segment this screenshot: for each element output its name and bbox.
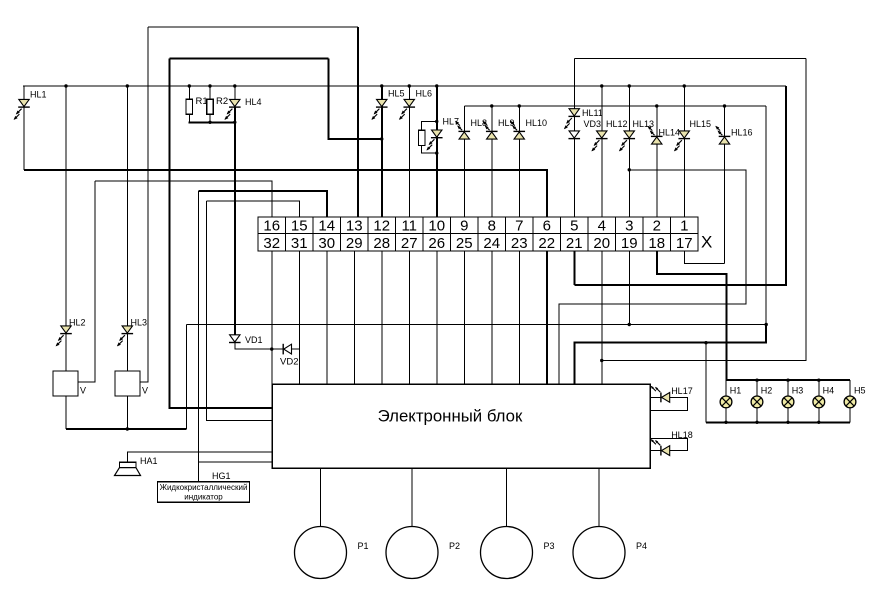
LED HL9: [483, 118, 515, 139]
wire lamp H4 stubs: [818, 380, 820, 422]
svg-text:23: 23: [511, 235, 528, 252]
lamp H3: [782, 385, 803, 407]
junction HL5: [380, 84, 383, 87]
svg-text:6: 6: [543, 218, 551, 235]
svg-text:3: 3: [625, 218, 633, 235]
svg-text:15: 15: [291, 218, 308, 235]
svg-text:HL18: HL18: [671, 430, 693, 440]
wire HL14 lead: [656, 106, 658, 217]
LED HL3: [117, 318, 147, 347]
wire HL12 lead: [601, 86, 603, 217]
svg-text:HL6: HL6: [416, 89, 433, 99]
svg-text:26: 26: [428, 235, 445, 252]
wire main rail drop to pin 21: [574, 86, 786, 285]
svg-text:32: 32: [263, 235, 280, 252]
wire P3 lead: [506, 468, 508, 527]
svg-text:HL16: HL16: [731, 128, 753, 138]
wire voltmeter ground rail: [66, 428, 187, 430]
wire HL11 anode rail: [574, 58, 806, 60]
wire VD2 to pin-31 drop: [292, 348, 300, 350]
wire pin-25 to block: [463, 251, 465, 384]
junction HL13: [628, 84, 631, 87]
svg-text:16: 16: [263, 218, 280, 235]
LCD indicator HG1: [158, 471, 250, 502]
lamp H1: [720, 385, 741, 407]
junction lamp return: [704, 341, 707, 344]
svg-text:P1: P1: [358, 541, 369, 551]
gauge PV2: [115, 371, 148, 396]
wire lamp bottom bus: [706, 421, 850, 423]
svg-text:7: 7: [515, 218, 523, 235]
wire pin-15 drop to block: [207, 201, 273, 421]
junction HL16 top: [723, 104, 726, 107]
LED HL13: [619, 119, 654, 151]
svg-text:P3: P3: [544, 541, 555, 551]
svg-text:HL10: HL10: [526, 118, 548, 128]
LED HL11: [564, 108, 603, 129]
svg-text:X: X: [701, 233, 712, 252]
wire HL5 lead: [381, 86, 383, 217]
svg-text:HG1: HG1: [212, 471, 231, 481]
LED HL2: [56, 318, 86, 347]
svg-text:2: 2: [653, 218, 661, 235]
resistor R2: [207, 96, 228, 114]
wire HL11-VD3 lead: [573, 59, 575, 218]
svg-text:28: 28: [373, 235, 390, 252]
svg-text:V: V: [142, 385, 148, 395]
motor P1: [295, 527, 369, 579]
wire HL7 shunt resistor top lead: [422, 122, 437, 131]
wire lamp H1 stubs: [725, 380, 727, 422]
motor P3: [481, 527, 555, 579]
svg-text:P2: P2: [449, 541, 460, 551]
LED HL6: [399, 89, 432, 120]
junction HL4 bottom: [233, 121, 236, 124]
wire pin-19 to ground rail: [628, 251, 630, 325]
junction HL12: [600, 84, 603, 87]
svg-text:14: 14: [318, 218, 335, 235]
svg-text:4: 4: [598, 218, 606, 235]
svg-text:HL5: HL5: [388, 89, 405, 99]
wire pin-15 stair: [207, 201, 300, 217]
wire HL8-rail drop to ground: [765, 106, 767, 343]
svg-text:VD3: VD3: [584, 119, 602, 129]
LED HL8: [455, 118, 487, 139]
junction HL7 resistor bottom: [435, 151, 438, 154]
svg-text:R2: R2: [216, 96, 228, 107]
svg-text:P4: P4: [636, 541, 647, 551]
wire PV1 bottom lead: [65, 396, 67, 429]
wire ground riser: [186, 325, 188, 430]
svg-text:HL2: HL2: [69, 318, 86, 328]
svg-text:H3: H3: [792, 385, 804, 395]
wire HA1 lead: [128, 452, 272, 462]
svg-text:29: 29: [346, 235, 363, 252]
resistor HL7 shunt: [419, 130, 425, 145]
svg-text:H1: H1: [730, 385, 742, 395]
LED HL5: [371, 89, 404, 120]
svg-text:HL17: HL17: [671, 386, 693, 396]
LED HL7: [426, 117, 459, 151]
wire pin-18 to lamps feed: [657, 251, 727, 380]
junction lamp H4 top: [817, 379, 820, 382]
wire pin-16 stair: [95, 181, 272, 217]
wire lamp top bus: [726, 379, 850, 381]
wire pin-24 to block: [491, 251, 493, 384]
svg-text:HL1: HL1: [30, 90, 47, 100]
svg-text:8: 8: [488, 218, 496, 235]
wire HL9 lead: [491, 106, 493, 217]
svg-text:V: V: [80, 385, 86, 395]
wire pin-17 to HL16: [684, 251, 724, 264]
svg-text:HL11: HL11: [582, 108, 603, 118]
wire pin-3 branch rail: [559, 170, 746, 384]
wire thick power loop top: [170, 58, 329, 60]
wire HG1 lead: [198, 462, 200, 482]
svg-text:11: 11: [401, 218, 417, 235]
wire cell-13 drop: [357, 27, 359, 217]
wire lamp H5 stubs: [849, 380, 851, 422]
diode VD1: [229, 335, 263, 345]
junction HL3: [126, 84, 129, 87]
svg-text:25: 25: [456, 235, 473, 252]
svg-text:H4: H4: [823, 385, 835, 395]
junction lamp H1 bottom: [724, 421, 727, 424]
wire HL18 loop: [650, 439, 688, 451]
wire P2 lead: [411, 468, 413, 527]
junction HL4: [233, 84, 236, 87]
svg-text:27: 27: [401, 235, 418, 252]
junction R2: [208, 84, 211, 87]
wire pin-28 to block: [381, 251, 383, 384]
junction pin-19 ground: [628, 323, 631, 326]
wire thick power left drop to block: [170, 59, 272, 409]
wire R1-R2-HL4 junction rail: [188, 121, 235, 123]
svg-text:VD2: VD2: [280, 357, 298, 368]
wire ground link to block: [575, 325, 767, 385]
wire P4 lead: [598, 468, 600, 527]
svg-text:30: 30: [318, 235, 335, 252]
wire ground rail: [187, 324, 767, 326]
wire HL17 loop: [650, 397, 688, 410]
junction HL9 top: [490, 104, 493, 107]
wire R1 bottom lead: [188, 114, 190, 122]
wire pin-22 to block: [546, 251, 548, 384]
svg-text:21: 21: [566, 235, 583, 252]
wire main +12V rail: [23, 85, 786, 87]
junction VD junction: [270, 347, 273, 350]
LED HL16: [715, 126, 752, 144]
junction lamp H4 bottom: [817, 421, 820, 424]
junction lamp H2 top: [755, 379, 758, 382]
svg-text:Электронный блок: Электронный блок: [378, 407, 523, 426]
junction lamp H3 bottom: [786, 421, 789, 424]
wire lamp return riser: [705, 343, 707, 423]
wire thick power right drop: [329, 59, 382, 140]
junction PV2 bottom: [126, 427, 129, 430]
svg-text:HL3: HL3: [131, 318, 148, 328]
wire lamp H3 stubs: [787, 380, 789, 422]
wire HL3-voltmeter right lead: [140, 27, 148, 382]
svg-text:HL14: HL14: [659, 128, 681, 138]
LED HL18: [651, 430, 693, 456]
junction R2 bottom: [208, 121, 211, 124]
wire HL8 rail: [464, 105, 766, 107]
svg-text:H5: H5: [854, 385, 866, 395]
junction HL7 resistor top: [435, 120, 438, 123]
wire HL2 branch: [65, 86, 67, 371]
svg-text:индикатор: индикатор: [184, 493, 223, 502]
wire HL4 cathode to VD1: [234, 108, 236, 335]
wire pin-20 to block: [601, 251, 603, 384]
junction lamp H3 top: [786, 379, 789, 382]
LED HL17: [651, 386, 693, 403]
LED HL4: [224, 97, 261, 120]
wire HL7 lead: [436, 86, 438, 217]
svg-text:13: 13: [346, 218, 363, 235]
svg-text:17: 17: [676, 235, 693, 252]
electronic block: [272, 384, 650, 468]
svg-text:24: 24: [483, 235, 500, 252]
svg-text:HL4: HL4: [245, 97, 262, 107]
motor P2: [386, 527, 460, 579]
svg-text:R1: R1: [196, 96, 208, 107]
wire HL13 lead: [628, 86, 630, 217]
wire PV2 bottom lead: [126, 396, 128, 429]
wire HL7 shunt resistor bottom lead: [422, 145, 437, 153]
svg-text:12: 12: [373, 218, 390, 235]
svg-text:HA1: HA1: [140, 456, 158, 466]
wire HL1 bottom rail to pin 6: [24, 170, 547, 217]
wire pin 21 stub: [573, 251, 575, 285]
wire R1 top lead: [188, 86, 190, 99]
wire HL1 cathode loop: [23, 86, 25, 170]
junction HL2: [64, 84, 67, 87]
junction HL6: [408, 84, 411, 87]
wire R2 bottom lead: [209, 114, 211, 122]
LED HL15: [674, 119, 711, 151]
svg-text:20: 20: [593, 235, 610, 252]
wire pin-16 drop to voltmeter PV1: [78, 181, 95, 382]
wire pin-30 to block: [326, 251, 328, 384]
svg-text:22: 22: [538, 235, 555, 252]
svg-text:5: 5: [570, 218, 578, 235]
junction HL15: [683, 84, 686, 87]
svg-text:10: 10: [428, 218, 445, 235]
wire pin-14 drop to block and HG1: [199, 191, 273, 462]
wire pin-14 stair: [199, 191, 327, 217]
connector X: [258, 217, 698, 252]
wire R2 top lead: [209, 86, 211, 99]
junction R1: [188, 84, 191, 87]
wire pin-32 to block via VD junction: [271, 251, 273, 384]
wire HL8 lead: [463, 106, 465, 217]
svg-text:31: 31: [291, 235, 308, 252]
svg-text:HL12: HL12: [606, 119, 628, 129]
wire cell-13 loop top: [148, 26, 358, 28]
svg-text:1: 1: [680, 218, 688, 235]
svg-text:9: 9: [460, 218, 468, 235]
wire HL4 top lead: [234, 86, 236, 99]
svg-text:18: 18: [648, 235, 665, 252]
wire pin-29 to block: [353, 251, 355, 384]
wire lamp H2 stubs: [756, 380, 758, 422]
wire HL15 lead: [683, 86, 685, 217]
junction ground corner: [765, 323, 768, 326]
wire VD1 to VD2 link: [235, 343, 283, 350]
svg-text:Жидкокристаллический: Жидкокристаллический: [160, 483, 248, 492]
wire pin-27 to block: [408, 251, 410, 384]
motor P4: [573, 527, 647, 579]
wire HL6 lead: [408, 86, 410, 217]
svg-text:HL15: HL15: [690, 119, 712, 129]
LED HL14: [648, 126, 681, 144]
wire HL3 branch: [126, 86, 128, 371]
gauge PV1: [53, 371, 86, 396]
wire pin-23 to block: [518, 251, 520, 384]
junction HL7: [435, 84, 438, 87]
lamp H4: [813, 385, 834, 407]
LED HL10: [510, 118, 547, 139]
svg-text:19: 19: [621, 235, 638, 252]
svg-text:H2: H2: [761, 385, 773, 395]
wire HL11 anode right drop: [602, 59, 806, 361]
resistor R1: [186, 96, 208, 114]
lamp H2: [751, 385, 772, 407]
junction pin-20 branch: [600, 359, 603, 362]
lamp H5: [844, 385, 865, 407]
junction HL14 top: [655, 104, 658, 107]
junction thick tap on HL5: [380, 137, 383, 140]
wire pin-31 to block: [298, 251, 300, 384]
wire pin-26 to block: [436, 251, 438, 384]
junction HL10 top: [518, 104, 521, 107]
LED HL12: [591, 119, 627, 151]
wire HL10 lead: [518, 106, 520, 217]
diode VD2: [280, 344, 298, 368]
junction lamp H2 bottom: [755, 421, 758, 424]
svg-text:VD1: VD1: [245, 335, 263, 345]
LED HL1: [14, 90, 47, 120]
diode VD3: [568, 119, 601, 139]
speaker HA1: [115, 456, 158, 476]
junction pin-3 branch: [628, 168, 631, 171]
wire P1 lead: [320, 468, 322, 527]
wire HL16 lead: [724, 106, 726, 264]
